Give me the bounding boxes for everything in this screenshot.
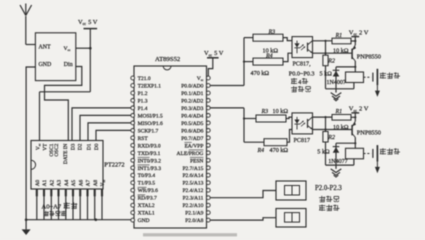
- svg-text:470 kΩ: 470 kΩ: [270, 147, 289, 154]
- relay coil (row 2): [346, 148, 364, 165]
- wire bottom return: [326, 88, 354, 90]
- junction: [243, 117, 245, 119]
- wire R3 to PC817 pin1 (row 2): [286, 117, 292, 118]
- svg-text:R3: R3: [268, 29, 276, 35]
- svg-text:RXD/P3.0: RXD/P3.0: [138, 143, 161, 149]
- label P0.0~P0.3 5 kOhm: [289, 70, 332, 77]
- junction: [354, 116, 356, 118]
- svg-text:10 kΩ: 10 kΩ: [273, 108, 289, 115]
- wire PC817 pin4 to R1 (row row 2): [313, 116, 333, 118]
- svg-text:PNP8550: PNP8550: [357, 130, 381, 137]
- power Vcc 5V rail (MCU): [204, 50, 224, 76]
- power Vcc 5V rail (receiver/PT2272): [78, 19, 98, 92]
- svg-text:GND: GND: [138, 218, 150, 224]
- svg-text:ALE/PROG: ALE/PROG: [177, 151, 204, 157]
- svg-text:A4: A4: [64, 179, 70, 186]
- label decoding pins: [44, 211, 49, 216]
- resistor R1 (row 2): [332, 109, 351, 131]
- svg-text:ANT: ANT: [39, 45, 52, 51]
- power Vcc 2V (row 2): [349, 106, 369, 122]
- svg-text:1N4077: 1N4077: [328, 159, 347, 165]
- svg-text:P2.2/A10: P2.2/A10: [182, 203, 203, 209]
- svg-text:MISO/P1.6: MISO/P1.6: [138, 121, 163, 127]
- svg-text:P2.0-P2.3: P2.0-P2.3: [315, 185, 342, 192]
- svg-text:PC817: PC817: [294, 138, 311, 144]
- svg-text:A1: A1: [42, 179, 48, 186]
- svg-text:A2: A2: [50, 179, 56, 186]
- svg-text:P1.4: P1.4: [138, 106, 148, 112]
- svg-text:P2.5/A13: P2.5/A13: [182, 181, 203, 187]
- svg-text:D3: D3: [70, 143, 76, 150]
- svg-text:RST: RST: [138, 136, 149, 142]
- display connector 2: [276, 209, 306, 228]
- svg-text:XTAL2: XTAL2: [138, 203, 155, 209]
- resistor R1 (row 1): [332, 33, 351, 55]
- svg-text:A6: A6: [78, 179, 84, 186]
- wire PC817 pin4 to R1 (row row 1): [313, 40, 333, 42]
- svg-text:RD/P3.7: RD/P3.7: [138, 196, 157, 202]
- ground: [22, 220, 31, 235]
- resistor R3 (row 2): [244, 108, 288, 122]
- junction: [324, 52, 326, 54]
- svg-text:4: 4: [298, 80, 301, 86]
- svg-text:Vcc5 V: Vcc5 V: [204, 50, 224, 57]
- wire D3 to P1.4: [72, 108, 134, 141]
- svg-text:R3: R3: [261, 109, 269, 115]
- svg-text:470 kΩ: 470 kΩ: [251, 70, 270, 77]
- resistor R2 (row 2): [323, 117, 335, 165]
- svg-text:P0.4/AD4: P0.4/AD4: [181, 113, 203, 119]
- svg-text:R2: R2: [327, 135, 335, 141]
- power Vcc 2V (row 1): [349, 29, 369, 45]
- svg-text:T2EXP1.1: T2EXP1.1: [138, 84, 162, 90]
- svg-text:XTAL1: XTAL1: [138, 211, 155, 217]
- svg-text:P2.0/A8: P2.0/A8: [185, 218, 203, 224]
- relay coil (row 1): [346, 72, 364, 89]
- ground: [331, 89, 342, 101]
- wire R4 to PC817 pin2 (row 2): [287, 130, 292, 143]
- svg-text:P0.5/AD5: P0.5/AD5: [181, 121, 203, 127]
- svg-text:Vcc2 V: Vcc2 V: [349, 106, 369, 113]
- svg-text:A0~A7: A0~A7: [42, 204, 62, 211]
- svg-text:T1/P3.5: T1/P3.5: [138, 181, 156, 187]
- label connect load (row 1): [380, 72, 386, 78]
- arrow below load: [375, 162, 380, 174]
- wire P0.0 to R3/R4 riser (row 1): [210, 38, 244, 86]
- wire PC817 pin3 to transistor base / R2 (row 1): [313, 52, 353, 54]
- svg-text:GND: GND: [39, 62, 53, 68]
- svg-text:VT: VT: [42, 143, 48, 151]
- svg-text:Vcc5 V: Vcc5 V: [78, 19, 98, 26]
- svg-text:TXD/P3.1: TXD/P3.1: [138, 151, 161, 157]
- resistor R2 (row 1): [323, 41, 335, 89]
- svg-text:EA/VPP: EA/VPP: [184, 143, 203, 149]
- wire R3 to PC817 pin1: [283, 38, 292, 41]
- load terminal bars (row 2): [373, 145, 378, 161]
- svg-text:PESN: PESN: [190, 158, 203, 164]
- caption remnant smudge: [143, 233, 237, 236]
- wire P0.3 to R3/R4 riser (row 2): [210, 108, 244, 142]
- wire D1 to P1.6: [88, 123, 134, 141]
- svg-text:P0.3/AD3: P0.3/AD3: [181, 106, 203, 112]
- wire GND of receiver to ground: [26, 67, 35, 220]
- svg-text:INT1/P3.3: INT1/P3.3: [138, 166, 162, 172]
- label connect load (row 2): [380, 148, 386, 154]
- svg-text:DATE IN: DATE IN: [63, 143, 69, 164]
- svg-text:P2.6/A14: P2.6/A14: [182, 173, 203, 179]
- svg-text:D2: D2: [78, 143, 84, 150]
- svg-text:P0.0~P0.3: P0.0~P0.3: [289, 70, 315, 77]
- svg-text:P0.7/AD7: P0.7/AD7: [181, 136, 203, 142]
- svg-text:A7: A7: [86, 179, 92, 186]
- svg-text:PT2272: PT2272: [104, 161, 124, 168]
- svg-text:WR/P3.6: WR/P3.6: [138, 188, 159, 194]
- svg-text:P2.1/A9: P2.1/A9: [185, 211, 203, 217]
- junction: [354, 40, 356, 42]
- transistor PNP8550 (row 1): [352, 45, 381, 72]
- svg-text:A3: A3: [57, 179, 63, 186]
- svg-text:P0.0/AD0: P0.0/AD0: [181, 84, 203, 90]
- wire D0 to P1.7: [96, 130, 134, 140]
- optocoupler PC817 (row 2): [292, 113, 313, 144]
- svg-text:1N4007: 1N4007: [327, 80, 346, 86]
- svg-text:R2: R2: [327, 59, 335, 65]
- junction: [243, 61, 245, 63]
- wire R1 to emitter: [351, 116, 355, 118]
- wire Din of receiver to PT2272 DATE IN: [45, 67, 82, 141]
- RF receiver module: [35, 33, 75, 81]
- decoder IC PT2272: [31, 141, 125, 190]
- svg-text:SCKP1.7: SCKP1.7: [138, 128, 159, 134]
- label connect display (CJK): [319, 196, 325, 202]
- svg-text:AT89S52: AT89S52: [155, 56, 180, 63]
- wire diode top to collector: [336, 66, 355, 68]
- label connect 4-way: [291, 78, 308, 86]
- junction: [89, 47, 92, 50]
- svg-text:Din: Din: [64, 62, 73, 68]
- svg-text:INT0/P3.2: INT0/P3.2: [138, 158, 162, 164]
- svg-text:D1: D1: [86, 143, 92, 150]
- junction: [354, 142, 356, 144]
- wire R4 to PC817 pin2: [283, 53, 292, 61]
- label relay (CJK): [291, 86, 297, 92]
- wire bottom return: [326, 164, 354, 166]
- antenna: [20, 4, 35, 45]
- svg-text:MOSI/P1.5: MOSI/P1.5: [138, 113, 163, 119]
- transistor PNP8550 (row 2): [352, 121, 381, 148]
- ground bus: [26, 219, 132, 221]
- resistor R4 (row 2): [244, 139, 288, 154]
- svg-text:P2.4/A12: P2.4/A12: [182, 188, 203, 194]
- wire relay to load (dashed): [364, 153, 372, 155]
- label A0-A7 address: [42, 202, 78, 210]
- svg-text:P1.3: P1.3: [138, 98, 148, 104]
- junction: [324, 40, 326, 42]
- wire P2.3/A11 to display 1: [210, 191, 276, 198]
- svg-text:Vcc2 V: Vcc2 V: [349, 29, 369, 36]
- svg-text:P1.2: P1.2: [138, 91, 148, 97]
- svg-text:5 kΩ: 5 kΩ: [317, 148, 330, 155]
- pin label overbars (INT0,INT1,WR,RD,EA,PROG,PESN): [138, 142, 204, 194]
- junction: [324, 128, 326, 130]
- junction: [25, 218, 28, 221]
- svg-text:D0: D0: [94, 143, 100, 150]
- load terminal bars (row 1): [373, 69, 378, 85]
- svg-text:P0.2/AD2: P0.2/AD2: [181, 98, 203, 104]
- svg-text:A8: A8: [93, 179, 99, 186]
- wire PC817 pin3 to transistor base / R2 (row 2): [313, 129, 353, 131]
- PT2272 A0-A8,Vss pin leads to ground bus: [37, 189, 102, 220]
- wire D2 to P1.5: [80, 115, 134, 140]
- wire Vcc pin of receiver to 5V rail: [76, 47, 91, 49]
- wire R1 to emitter: [351, 40, 355, 42]
- svg-text:PC817,: PC817,: [293, 62, 312, 68]
- MCU AT89S52: [131, 56, 210, 228]
- svg-text:P0.6/AD6: P0.6/AD6: [181, 128, 203, 134]
- display connector 1: [276, 181, 306, 200]
- resistor R4 (row 1): [244, 52, 283, 76]
- svg-text:T0/P3.4: T0/P3.4: [138, 173, 156, 179]
- svg-text:A0: A0: [35, 179, 41, 186]
- svg-text:5 kΩ: 5 kΩ: [320, 70, 333, 77]
- junction: [324, 116, 326, 118]
- diode 1N400x (row 2): [333, 143, 340, 165]
- svg-text:R4: R4: [265, 52, 273, 59]
- svg-text:P2.7/A15: P2.7/A15: [182, 166, 203, 172]
- wire relay to load (dashed): [364, 76, 372, 78]
- arrow below load: [375, 85, 380, 97]
- svg-text:P0.1/AD1: P0.1/AD1: [181, 91, 203, 97]
- svg-text:R4: R4: [257, 147, 265, 154]
- diode 1N400x (row 1): [333, 67, 340, 89]
- svg-text:PNP8550: PNP8550: [357, 53, 381, 60]
- label digital tube (CJK): [319, 205, 325, 211]
- svg-text:R1: R1: [335, 109, 343, 115]
- svg-text:P2.3/A11: P2.3/A11: [183, 196, 204, 202]
- svg-text:R1: R1: [335, 33, 343, 39]
- wire diode top to collector: [336, 142, 355, 144]
- svg-text:A5: A5: [71, 179, 77, 186]
- junction: [354, 66, 356, 68]
- junction: [95, 218, 98, 221]
- wire P2.0/A8 to display 2: [210, 218, 276, 220]
- svg-text:T21.0: T21.0: [138, 76, 151, 82]
- svg-text:OSC2: OSC2: [54, 143, 60, 156]
- wire 5V rail down to PT2272 Vcc pin: [40, 92, 91, 141]
- optocoupler PC817 (row 1): [292, 37, 313, 68]
- resistor R3 (row 1): [244, 29, 283, 54]
- ground: [331, 165, 342, 177]
